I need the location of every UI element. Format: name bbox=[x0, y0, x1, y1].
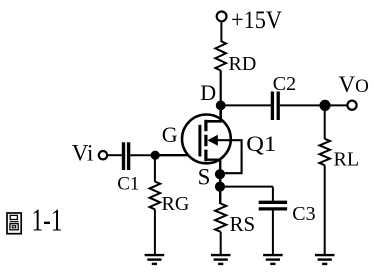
resistor RS bbox=[215, 204, 226, 232]
node S upper junction dot bbox=[215, 169, 225, 179]
wire: body tie to source (node S) bbox=[215, 140, 242, 173]
svg-text:Q1: Q1 bbox=[246, 131, 276, 156]
terminal Vi (open circle) bbox=[99, 151, 107, 159]
svg-text:+15V: +15V bbox=[231, 7, 282, 34]
wire: Vi terminal to C1 bbox=[107, 154, 122, 156]
svg-text:C1: C1 bbox=[117, 174, 139, 195]
wire: node S down to RS bbox=[219, 187, 221, 204]
node D junction dot bbox=[216, 101, 226, 111]
node S lower junction dot bbox=[215, 182, 225, 192]
ground (RS) bbox=[211, 255, 231, 264]
wire: node S to C3 bbox=[220, 186, 273, 188]
transistor Q1 channel segment (drain) bbox=[204, 120, 207, 131]
wire: gate node to MOSFET gate bbox=[155, 154, 199, 156]
wire: gate node down to RG bbox=[154, 155, 156, 182]
svg-text:C2: C2 bbox=[273, 73, 296, 95]
transistor Q1 body arrow bbox=[207, 135, 217, 146]
svg-text:RS: RS bbox=[230, 212, 256, 236]
wire: RL to ground bbox=[324, 165, 326, 255]
node gate junction dot bbox=[151, 151, 160, 160]
svg-text:RL: RL bbox=[334, 149, 360, 171]
ground (C3) bbox=[263, 255, 283, 264]
wire: node D to C2 bbox=[221, 104, 271, 106]
transistor Q1 source lead bbox=[206, 160, 220, 204]
svg-text:VO: VO bbox=[339, 72, 369, 97]
svg-text:S: S bbox=[198, 165, 211, 190]
transistor Q1 drain lead bbox=[206, 104, 221, 121]
capacitor C1 bbox=[124, 142, 129, 170]
wire: C2 to Vo terminal bbox=[280, 104, 348, 106]
wire: C3 to ground bbox=[272, 210, 274, 255]
svg-text:C3: C3 bbox=[292, 203, 315, 225]
node Vo junction dot bbox=[319, 100, 330, 111]
ground (RG) bbox=[145, 255, 165, 264]
transistor Q1 gate bar bbox=[198, 125, 201, 157]
terminal +15V (open circle) bbox=[217, 12, 227, 22]
wire: C1 to gate node bbox=[130, 154, 155, 156]
op: MOSFET Q1 body circle bbox=[182, 114, 231, 163]
svg-text:D: D bbox=[200, 80, 216, 105]
wire: RS to ground bbox=[220, 232, 222, 255]
transistor Q1 channel segment (source) bbox=[204, 150, 207, 162]
resistor RG bbox=[150, 182, 161, 210]
wire: RG to ground bbox=[154, 209, 156, 255]
svg-text:Vi: Vi bbox=[72, 140, 94, 165]
wire: +15V terminal stub bbox=[220, 22, 222, 42]
svg-text:G: G bbox=[162, 122, 178, 147]
svg-text:RD: RD bbox=[229, 53, 257, 75]
ground (RL) bbox=[315, 255, 335, 264]
resistor RD bbox=[215, 41, 226, 71]
svg-text:RG: RG bbox=[162, 193, 190, 215]
terminal Vo (open circle) bbox=[347, 101, 356, 110]
transistor Q1 channel segment (body) bbox=[204, 135, 207, 146]
wire: C3 top lead bbox=[272, 187, 274, 201]
caption character 圖 (drawn) bbox=[7, 213, 21, 234]
capacitor C2 bbox=[272, 92, 278, 121]
wire: RD to drain (node D vertical) bbox=[220, 71, 222, 122]
resistor RL bbox=[319, 139, 330, 165]
capacitor C3 bbox=[259, 202, 287, 209]
wire: Vo node down to RL bbox=[324, 105, 326, 139]
svg-text:1-1: 1-1 bbox=[32, 202, 63, 238]
